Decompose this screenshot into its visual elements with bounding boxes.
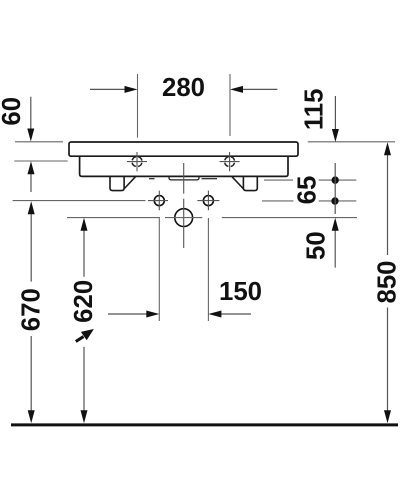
right tab diagonal brace bbox=[232, 177, 243, 189]
svg-text:620: 620 bbox=[70, 280, 98, 323]
extension line 60 bottom bbox=[14, 160, 67, 162]
extension line 150 left bbox=[158, 218, 160, 321]
tap hole crosshair right bbox=[220, 152, 240, 171]
tap hole crosshair left bbox=[127, 152, 147, 171]
svg-text:670: 670 bbox=[18, 288, 46, 331]
dimension 850 line with arrows bbox=[384, 142, 391, 423]
hidden slot under bowl (center notch) bbox=[169, 177, 199, 180]
dimension 620 line with arrows bbox=[81, 218, 88, 423]
washbasin bowl body bbox=[80, 156, 288, 176]
svg-text:850: 850 bbox=[374, 260, 400, 303]
dimension 150 left arrow bbox=[108, 311, 159, 318]
extension line drain level bbox=[67, 217, 357, 219]
washbasin rim (front slab) bbox=[69, 142, 298, 156]
dimension 150 right arrow bbox=[208, 311, 251, 318]
drain circle bbox=[175, 209, 193, 227]
extension line fixing holes row left bbox=[13, 200, 146, 202]
extension line 280 right bbox=[229, 74, 231, 136]
left tab diagonal brace bbox=[124, 177, 135, 189]
right fixing tab bbox=[243, 177, 257, 191]
left fixing tab bbox=[110, 177, 124, 191]
dot terminator 65 bottom bbox=[331, 197, 338, 204]
extension line 280 left bbox=[137, 74, 139, 138]
hidden overflow line left bbox=[149, 178, 155, 180]
dimension 60 top arrow bbox=[27, 97, 34, 142]
dimension 60 bottom arrow bbox=[28, 161, 35, 192]
hidden overflow line right bbox=[202, 178, 218, 180]
dimension 115 arrow bbox=[332, 96, 339, 142]
dimension 280 right arrow bbox=[230, 86, 277, 93]
svg-text:50: 50 bbox=[303, 231, 331, 260]
620 adjustability arrow (NE) bbox=[76, 337, 84, 342]
svg-text:280: 280 bbox=[162, 74, 205, 102]
extension line rim top left bbox=[15, 141, 63, 143]
dimension 670 line with arrows bbox=[28, 201, 35, 423]
extension line 150 right bbox=[207, 218, 209, 321]
svg-text:150: 150 bbox=[219, 278, 262, 306]
fixing hole circle right bbox=[197, 191, 219, 211]
extension line fixing holes row right bbox=[262, 200, 356, 202]
fixing hole circle left bbox=[148, 191, 168, 211]
svg-text:65: 65 bbox=[293, 176, 321, 205]
drain vertical centerline bbox=[183, 163, 185, 248]
floor line bbox=[11, 423, 398, 426]
dimension 50 arrow bbox=[332, 218, 339, 268]
line between dots bbox=[334, 163, 336, 214]
dot terminator 65 top bbox=[332, 176, 339, 183]
dimension 280 left arrow bbox=[90, 86, 138, 93]
svg-text:60: 60 bbox=[0, 97, 26, 126]
svg-text:115: 115 bbox=[301, 88, 329, 130]
extension line rim top right bbox=[308, 141, 395, 143]
extension line tap row right bbox=[264, 179, 356, 181]
